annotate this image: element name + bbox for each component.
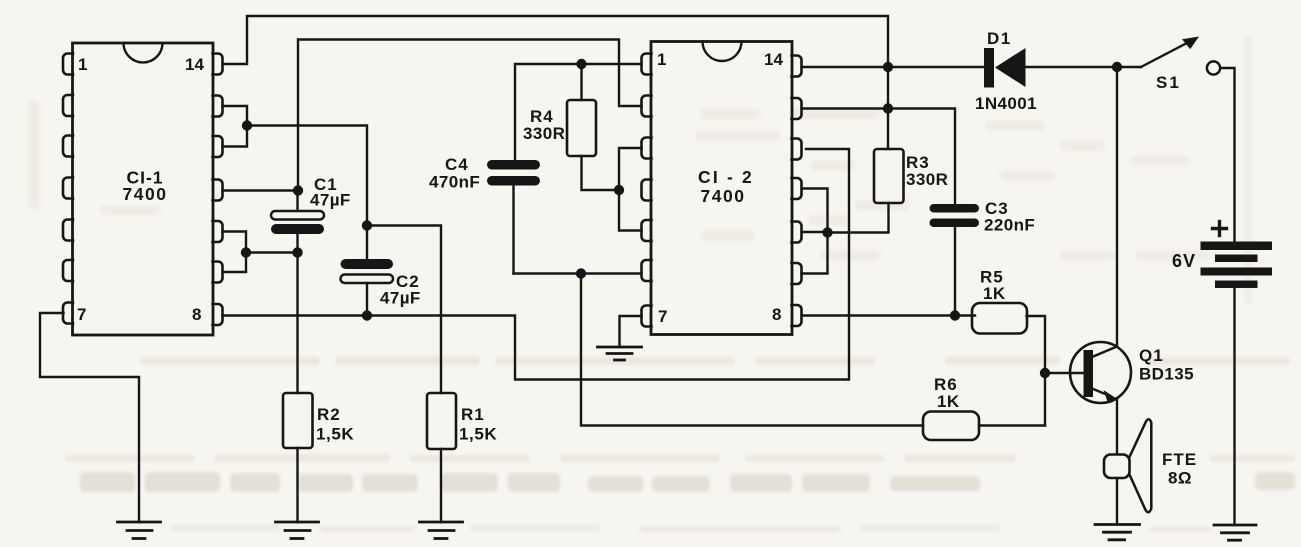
wire: R1 to ground bbox=[440, 449, 442, 522]
svg-text:1,5K: 1,5K bbox=[316, 425, 354, 444]
faint ghost marks bbox=[28, 100, 1210, 261]
capacitor C1 (electrolytic 47uF) bbox=[271, 191, 324, 253]
wire: second rail from C1 branch to CI-2 pin 2 bbox=[298, 40, 642, 191]
junction: R4 top on pin1 wire bbox=[576, 59, 586, 69]
wire: speaker to ground bbox=[1116, 478, 1118, 525]
svg-text:7: 7 bbox=[77, 305, 86, 324]
junction: pin6 wire / feedback drop bbox=[576, 268, 586, 278]
ground under CI-1 pin 7 bbox=[118, 522, 161, 539]
svg-text:8Ω: 8Ω bbox=[1168, 469, 1192, 488]
svg-text:330R: 330R bbox=[906, 170, 948, 189]
junction: supply rail / pin 14 bbox=[883, 62, 893, 72]
svg-text:8: 8 bbox=[192, 305, 201, 324]
wire: base node to Q1 base bbox=[1045, 372, 1084, 374]
wire: R5 to Q1 base node bbox=[1027, 316, 1046, 426]
svg-text:S1: S1 bbox=[1156, 73, 1181, 92]
capacitor C4 470nF bbox=[487, 160, 540, 274]
junction: pins 11/10/9 / R3 bottom bbox=[822, 227, 832, 237]
wire: Q1 collector up to supply node bbox=[1116, 67, 1118, 347]
svg-text:CI - 2: CI - 2 bbox=[698, 167, 754, 187]
wire: top supply rail from CI-1 pin14 to D1 node bbox=[223, 16, 889, 67]
svg-text:14: 14 bbox=[764, 50, 783, 69]
svg-text:7400: 7400 bbox=[701, 186, 746, 206]
junction: C2 top / R1 branch bbox=[362, 220, 372, 230]
capacitor C2 (electrolytic 47uF) bbox=[341, 226, 394, 316]
resistor R4 330R bbox=[567, 64, 619, 190]
wire: Q1 emitter to speaker bbox=[1116, 399, 1118, 455]
label C1 47uF bbox=[310, 175, 351, 210]
svg-text:1K: 1K bbox=[937, 392, 960, 411]
CI-2 name label 7400 bbox=[698, 167, 754, 206]
resistor R3 330R bbox=[828, 149, 904, 233]
svg-text:6V: 6V bbox=[1172, 251, 1196, 271]
svg-text:1: 1 bbox=[78, 55, 87, 74]
label R4 330R bbox=[523, 107, 565, 143]
wire: R2 to ground bbox=[296, 448, 298, 522]
junction: C1 bottom / R2 bbox=[292, 247, 302, 257]
svg-text:C4: C4 bbox=[445, 155, 469, 174]
junction: C2 bottom on pin8 wire bbox=[362, 310, 372, 320]
svg-text:47µF: 47µF bbox=[310, 191, 351, 210]
wire: CI-2 pin 7 to ground bbox=[620, 316, 642, 347]
wire: S1 to battery positive bbox=[1221, 68, 1235, 242]
ground under CI-2 pin 7 bbox=[598, 347, 642, 360]
junction: pins 10/9 bbox=[241, 247, 251, 257]
wire: CI-1 pins 13-12 tie bar bbox=[223, 106, 248, 147]
svg-text:8: 8 bbox=[772, 305, 781, 324]
wire: from pins13/12 junction to C2 top bbox=[247, 126, 367, 226]
svg-text:1,5K: 1,5K bbox=[459, 425, 497, 444]
svg-text:220nF: 220nF bbox=[984, 216, 1035, 235]
scan bleed-through bottom dashes bbox=[170, 525, 1210, 532]
svg-text:330R: 330R bbox=[523, 124, 565, 143]
CI-1 name label 7400 bbox=[123, 168, 168, 205]
resistor R1 1,5K bbox=[427, 393, 456, 449]
wire: CI-2 pins 3-5 tie with R4 junction bbox=[619, 148, 642, 231]
diode D1 1N4001 bbox=[984, 48, 1117, 88]
transistor Q1 BD135 bbox=[1070, 342, 1131, 403]
page gutter streak right bbox=[1244, 35, 1252, 305]
switch S1 bbox=[1117, 37, 1220, 75]
resistor R6 1K bbox=[923, 412, 979, 441]
wire: feedback from pin6 node down to R6 bbox=[581, 274, 923, 426]
wire: pin 10 stub bbox=[802, 231, 828, 233]
junction: Q1 base node bbox=[1040, 368, 1050, 378]
svg-text:470nF: 470nF bbox=[429, 173, 480, 192]
wire: CI-2 pins 11-10-9 tie bar bbox=[802, 189, 828, 274]
label C3 220nF bbox=[984, 199, 1035, 235]
wire: C4 bottom to CI-2 pin 6 bbox=[514, 272, 642, 274]
label R2 1,5K bbox=[316, 405, 354, 444]
wire: CI-2 pin 14 supply row to D1 bbox=[802, 66, 985, 68]
junction: D1 cathode / S1 / collector bbox=[1112, 62, 1122, 72]
svg-text:BD135: BD135 bbox=[1139, 365, 1194, 384]
svg-text:R2: R2 bbox=[317, 405, 341, 424]
ground under R2 bbox=[276, 522, 319, 539]
junction: C3 bottom on pin8 wire bbox=[950, 310, 960, 320]
wire: C2 top to R1 bbox=[367, 226, 441, 394]
label C2 47uF bbox=[380, 272, 421, 308]
label R5 1K bbox=[980, 268, 1006, 304]
svg-text:7400: 7400 bbox=[123, 184, 168, 204]
svg-text:1: 1 bbox=[657, 50, 666, 69]
wire: supply node down to R3 bbox=[887, 67, 889, 149]
wire: C4 top to CI-2 pin 1 bbox=[515, 64, 642, 162]
label FTE 8ohm bbox=[1162, 450, 1197, 488]
label Q1 BD135 bbox=[1139, 346, 1194, 384]
svg-text:R1: R1 bbox=[461, 405, 485, 424]
wire: C1 bottom down to R2 bbox=[296, 253, 298, 394]
scan bleed-through ghost headline bbox=[80, 472, 1295, 492]
wire: CI-2 pin 13 to C3 top bbox=[802, 109, 956, 205]
label C4 470nF bbox=[429, 155, 480, 192]
svg-text:14: 14 bbox=[185, 55, 204, 74]
IC CI-2 body bbox=[651, 42, 792, 335]
battery B1 6V bbox=[1201, 242, 1273, 526]
ground under battery bbox=[1214, 525, 1256, 540]
battery plus sign bbox=[1213, 222, 1227, 236]
svg-text:FTE: FTE bbox=[1162, 450, 1197, 469]
wire: CI-1 pin 7 to ground bbox=[40, 313, 139, 522]
junction: R4 bottom / pins 3-5 bbox=[614, 185, 624, 195]
scan bleed-through dashes row bbox=[65, 454, 1295, 462]
svg-text:1N4001: 1N4001 bbox=[975, 94, 1037, 113]
label R1 1,5K bbox=[459, 405, 497, 444]
ground under speaker bbox=[1095, 525, 1140, 540]
wire: CI-1 pin 8 output run to CI-2 pin 12 bbox=[223, 149, 850, 380]
label R6 1K bbox=[934, 375, 960, 411]
junction: pin 11 / C1 top bbox=[293, 185, 303, 195]
wire: CI-2 pin 8 to R5 bbox=[802, 314, 976, 316]
junction: pin 13 wire / R3 branch bbox=[883, 103, 893, 113]
resistor R5 1K bbox=[972, 303, 1027, 334]
ground under R1 bbox=[420, 522, 463, 539]
CI-1 left pin bumps (pins 1-7) bbox=[63, 54, 73, 324]
scan bleed-through band mid bbox=[140, 356, 1290, 365]
junction: pins 13/12 bbox=[242, 120, 252, 130]
wire: CI-1 pin 11 to C1 line bbox=[223, 189, 299, 191]
speaker FTE 8 ohm bbox=[1104, 419, 1151, 512]
wire: pins10/9 junction to C1 bottom bbox=[246, 251, 298, 253]
capacitor C3 220nF bbox=[930, 204, 980, 316]
CI-2 right pin bumps (pins 14-8) bbox=[792, 56, 802, 327]
CI-2 left pin bumps (pins 1-7) bbox=[642, 54, 652, 327]
IC CI-1 body bbox=[73, 43, 214, 335]
wire: CI-1 pins 10-9 tie bar bbox=[223, 232, 247, 273]
svg-text:D1: D1 bbox=[987, 29, 1012, 48]
svg-text:7: 7 bbox=[658, 307, 667, 326]
resistor R2 1,5K bbox=[283, 393, 313, 448]
wire: R6 right to base node riser bbox=[979, 424, 1045, 426]
svg-text:47µF: 47µF bbox=[380, 289, 421, 308]
svg-text:Q1: Q1 bbox=[1139, 346, 1164, 365]
svg-text:1K: 1K bbox=[983, 284, 1006, 303]
label R3 330R bbox=[906, 153, 948, 189]
CI-1 right pin bumps (pins 14-8) bbox=[213, 54, 223, 326]
